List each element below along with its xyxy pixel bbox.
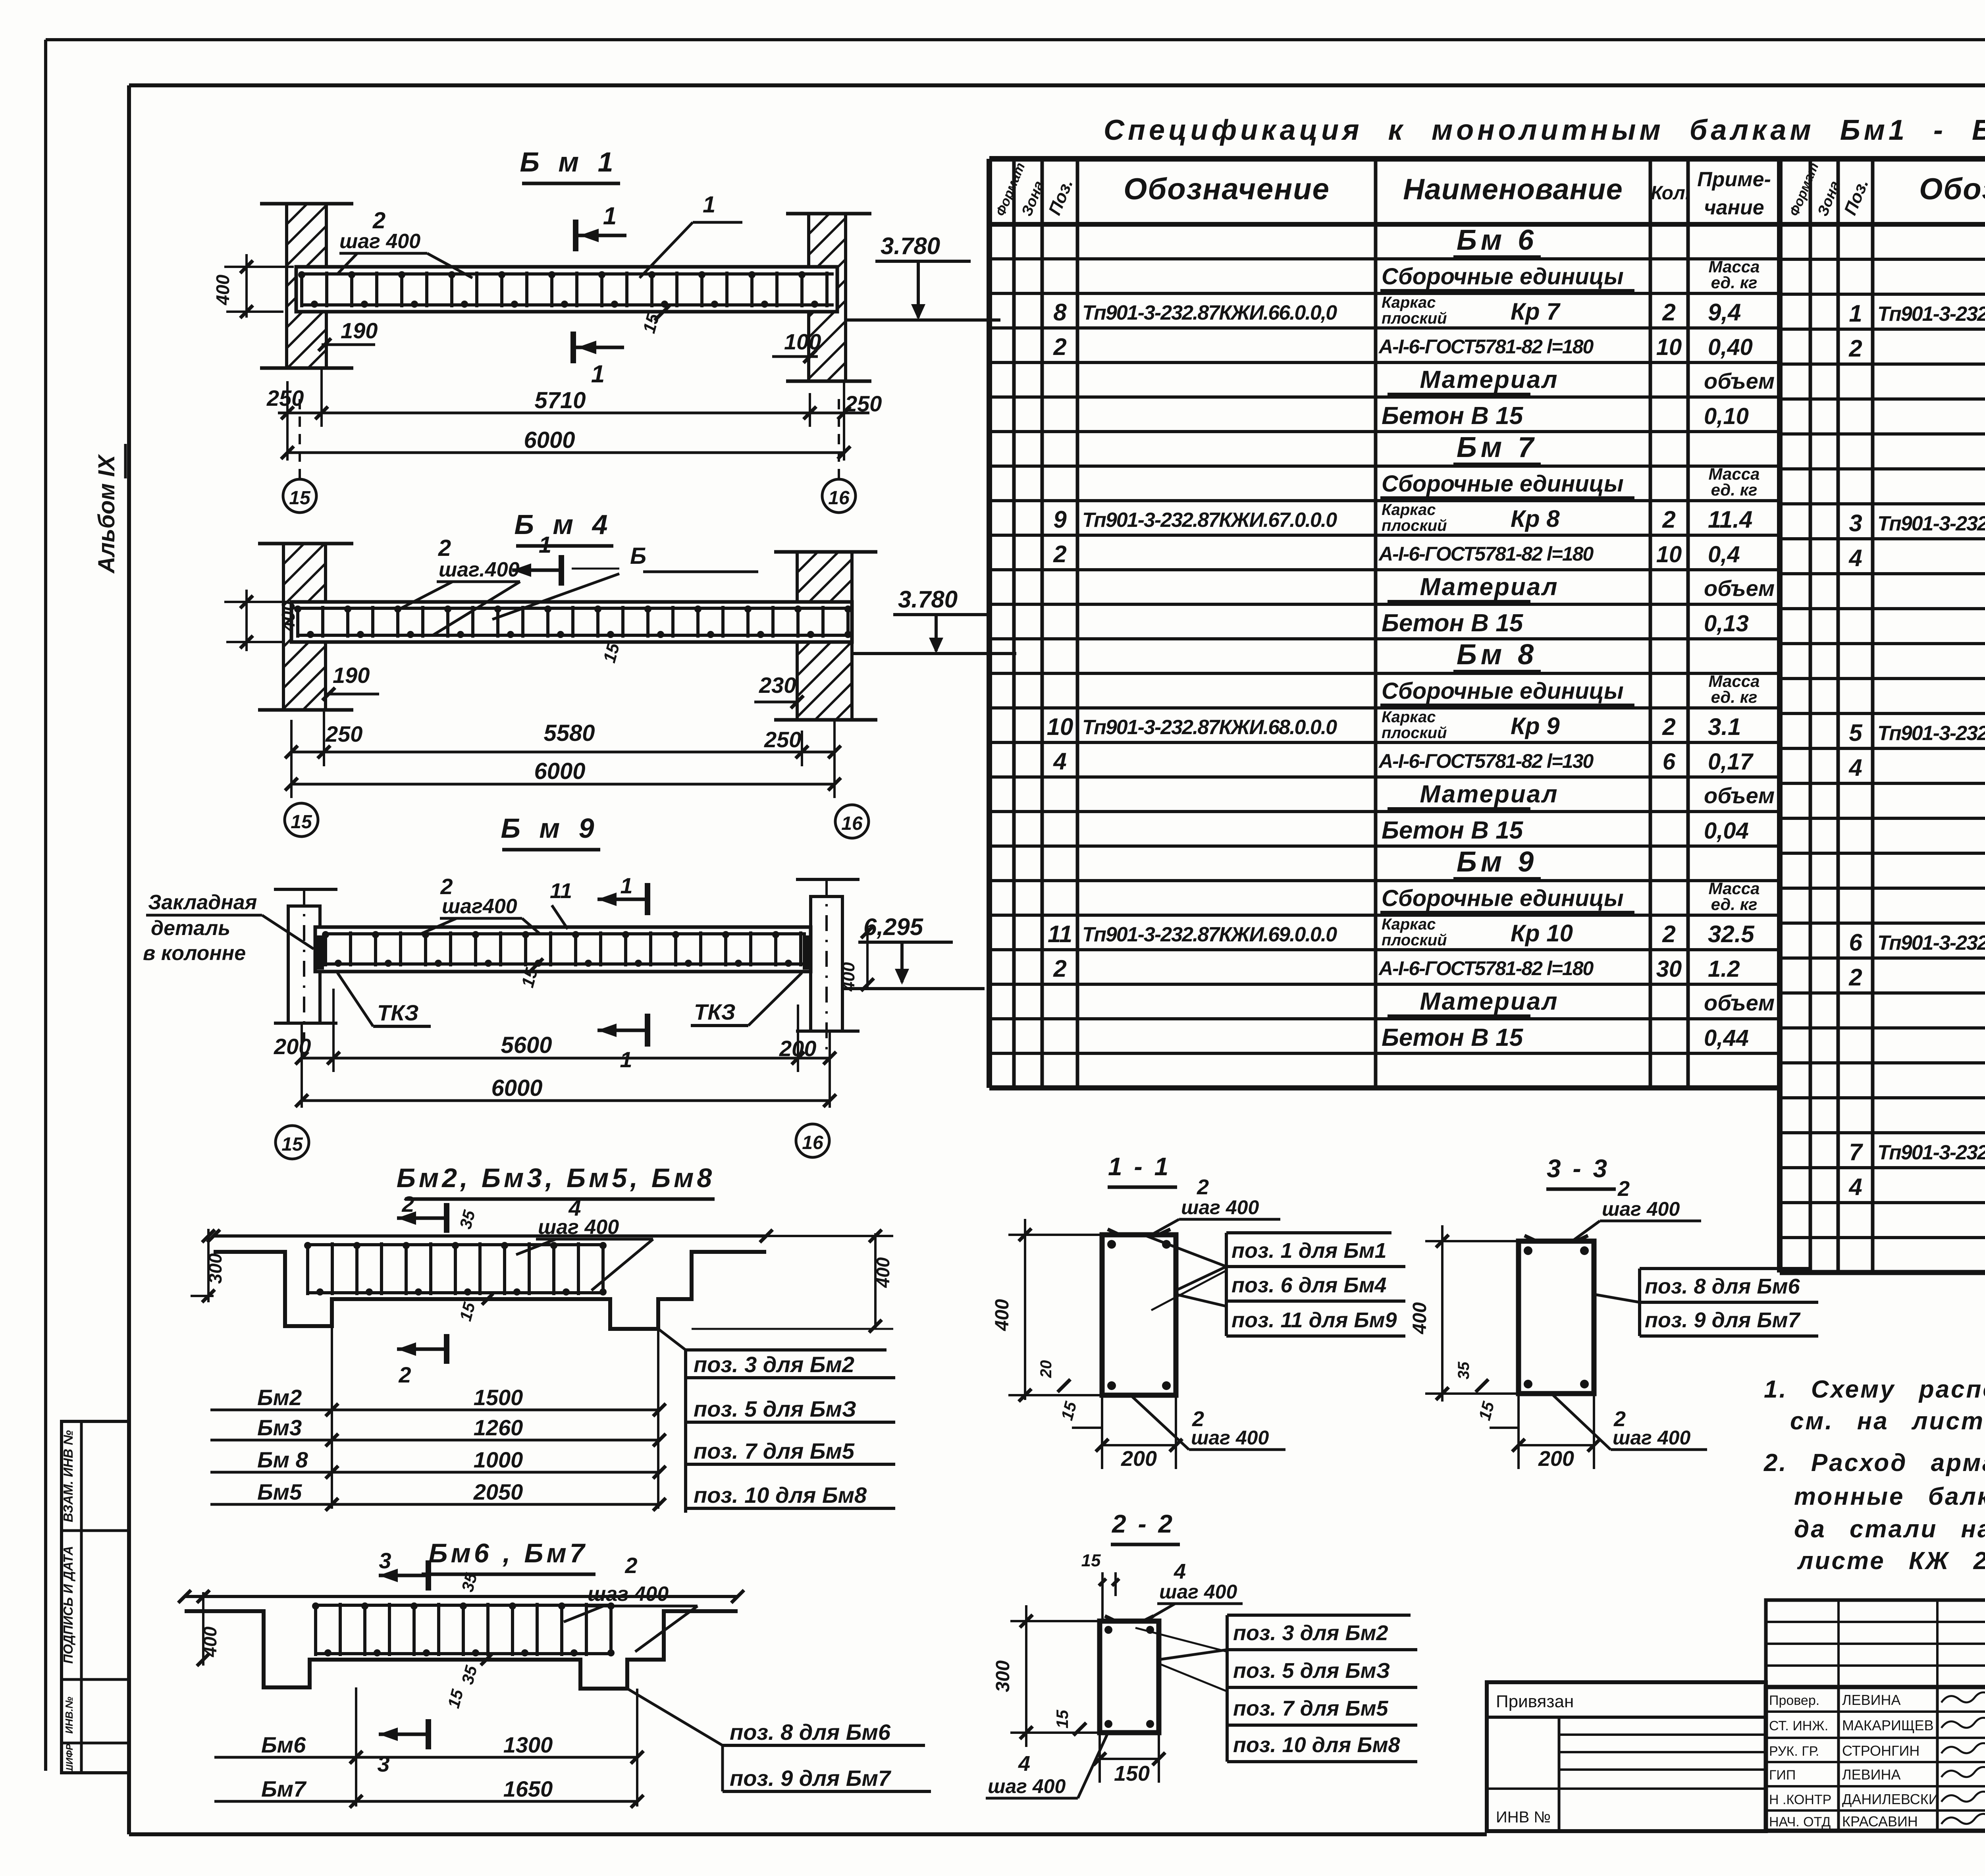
svg-text:Тп901-3-232.87КЖИ.63.0.0.0: Тп901-3-232.87КЖИ.63.0.0.0	[1877, 722, 1985, 745]
svg-text:поз. 3 для Бм2: поз. 3 для Бм2	[1233, 1621, 1388, 1645]
svg-text:Приме-: Приме-	[1697, 168, 1771, 191]
svg-text:400: 400	[992, 1299, 1013, 1331]
svg-text:объем: объем	[1704, 368, 1775, 393]
svg-text:Тп901-3-232.87КЖИ.69.0.0.0: Тп901-3-232.87КЖИ.69.0.0.0	[1082, 923, 1337, 946]
svg-text:15: 15	[291, 812, 312, 833]
svg-text:2: 2	[1662, 921, 1675, 947]
svg-text:0,04: 0,04	[1704, 818, 1749, 844]
svg-text:35: 35	[1455, 1361, 1472, 1379]
svg-text:2: 2	[438, 535, 451, 561]
svg-text:Б: Б	[630, 543, 646, 569]
svg-text:деталь: деталь	[151, 917, 230, 940]
svg-text:4: 4	[1848, 754, 1862, 781]
svg-text:2: 2	[1662, 506, 1675, 533]
svg-text:шаг 400: шаг 400	[588, 1583, 669, 1606]
svg-text:Тп901-3-232.87КЖИ.64.0.0.0: Тп901-3-232.87КЖИ.64.0.0.0	[1877, 931, 1985, 954]
svg-text:Привязан: Привязан	[1496, 1692, 1574, 1711]
svg-text:4: 4	[1174, 1560, 1186, 1583]
svg-text:ед. кг: ед. кг	[1711, 688, 1758, 706]
svg-text:Бм2, Бм3, Бм5, Бм8: Бм2, Бм3, Бм5, Бм8	[397, 1163, 715, 1193]
svg-text:1: 1	[1849, 300, 1862, 327]
svg-text:шаг400: шаг400	[442, 895, 517, 918]
svg-text:А-I-6-ГОСТ5781-82 l=180: А-I-6-ГОСТ5781-82 l=180	[1378, 543, 1594, 565]
svg-text:поз. 5 для БмЗ: поз. 5 для БмЗ	[1233, 1659, 1390, 1683]
svg-text:плоский: плоский	[1382, 310, 1447, 327]
svg-text:190: 190	[333, 663, 370, 688]
svg-text:4: 4	[1053, 748, 1066, 775]
svg-text:5600: 5600	[501, 1032, 552, 1058]
svg-text:2: 2	[1662, 299, 1675, 326]
svg-text:16: 16	[802, 1132, 823, 1153]
svg-text:1000: 1000	[474, 1447, 523, 1472]
svg-text:Каркас: Каркас	[1382, 501, 1436, 519]
svg-text:Альбом IX: Альбом IX	[94, 454, 119, 574]
svg-text:150: 150	[1114, 1762, 1150, 1785]
svg-text:Н .КОНТР: Н .КОНТР	[1769, 1792, 1831, 1807]
svg-text:поз. 11 для Бм9: поз. 11 для Бм9	[1231, 1308, 1397, 1332]
svg-text:0,17: 0,17	[1708, 749, 1754, 775]
svg-text:поз. 8 для Бм6: поз. 8 для Бм6	[730, 1720, 891, 1745]
svg-text:Бетон В 15: Бетон В 15	[1382, 609, 1524, 637]
svg-text:ЛЕВИНА: ЛЕВИНА	[1842, 1766, 1901, 1783]
svg-text:Кол.: Кол.	[1651, 183, 1690, 204]
svg-text:Кр 7: Кр 7	[1511, 298, 1561, 325]
svg-text:1: 1	[603, 202, 617, 230]
svg-text:ШИФР: ШИФР	[64, 1743, 75, 1774]
svg-text:Бм5: Бм5	[257, 1479, 302, 1504]
svg-text:250: 250	[325, 721, 362, 746]
svg-text:0,4: 0,4	[1708, 542, 1740, 567]
svg-text:Каркас: Каркас	[1382, 916, 1436, 933]
svg-text:поз. 7 для Бм5: поз. 7 для Бм5	[694, 1438, 855, 1463]
svg-text:Бм3: Бм3	[257, 1415, 302, 1440]
svg-text:Обозначение: Обозначение	[1124, 172, 1330, 206]
svg-text:Кр 8: Кр 8	[1511, 505, 1560, 532]
svg-text:Бм6 , Бм7: Бм6 , Бм7	[428, 1538, 588, 1568]
svg-text:0,44: 0,44	[1704, 1025, 1749, 1051]
svg-text:2: 2	[624, 1553, 637, 1578]
svg-text:Б м 4: Б м 4	[514, 509, 613, 540]
svg-text:Материал: Материал	[1420, 573, 1558, 601]
svg-text:ПОДПИСЬ И ДАТА: ПОДПИСЬ И ДАТА	[61, 1546, 75, 1664]
svg-text:СТРОНГИН: СТРОНГИН	[1842, 1743, 1919, 1759]
svg-text:чание: чание	[1704, 196, 1764, 219]
svg-text:1260: 1260	[474, 1415, 523, 1440]
svg-text:Сборочные единицы: Сборочные единицы	[1382, 264, 1624, 289]
svg-text:плоский: плоский	[1382, 517, 1447, 534]
svg-text:0,10: 0,10	[1704, 403, 1749, 429]
svg-text:2. Расход арматуры на монол: 2. Расход арматуры на монолитные железоб…	[1763, 1449, 1985, 1477]
svg-text:2: 2	[1617, 1177, 1630, 1201]
svg-text:16: 16	[828, 488, 850, 509]
svg-text:1650: 1650	[503, 1776, 553, 1801]
svg-text:объем: объем	[1704, 783, 1775, 808]
svg-text:А-I-6-ГОСТ5781-82 l=180: А-I-6-ГОСТ5781-82 l=180	[1378, 957, 1594, 979]
svg-text:6: 6	[1849, 929, 1862, 956]
svg-text:400: 400	[278, 601, 299, 632]
svg-text:поз. 10 для Бм8: поз. 10 для Бм8	[1233, 1733, 1400, 1757]
svg-text:Бетон В 15: Бетон В 15	[1382, 817, 1524, 844]
svg-text:шаг 400: шаг 400	[988, 1775, 1066, 1797]
svg-text:3: 3	[1849, 510, 1862, 536]
svg-text:3.1: 3.1	[1708, 713, 1741, 740]
svg-text:400: 400	[1409, 1302, 1430, 1334]
svg-text:КРАСАВИН: КРАСАВИН	[1842, 1813, 1918, 1830]
svg-text:1: 1	[591, 361, 605, 388]
svg-text:Каркас: Каркас	[1382, 294, 1436, 311]
svg-text:2: 2	[1053, 541, 1066, 567]
svg-text:МАКАРИЩЕВ: МАКАРИЩЕВ	[1842, 1717, 1934, 1733]
svg-text:плоский: плоский	[1382, 724, 1447, 742]
svg-text:15: 15	[281, 1134, 303, 1155]
svg-text:Сборочные единицы: Сборочные единицы	[1382, 678, 1624, 704]
svg-text:3 - 3: 3 - 3	[1547, 1154, 1609, 1183]
svg-text:Закладная: Закладная	[148, 891, 257, 914]
svg-text:Сборочные единицы: Сборочные единицы	[1382, 885, 1624, 911]
svg-text:тонные балки учтен в ведо: тонные балки учтен в ведомости расхо-	[1794, 1483, 1985, 1510]
svg-text:15: 15	[1053, 1710, 1072, 1728]
svg-text:1: 1	[620, 873, 632, 898]
svg-text:Тп901-3-232.87КЖИ.67.0.0.0: Тп901-3-232.87КЖИ.67.0.0.0	[1082, 509, 1337, 532]
svg-text:15: 15	[1081, 1551, 1101, 1570]
svg-text:шаг 400: шаг 400	[1191, 1427, 1269, 1449]
svg-text:1500: 1500	[474, 1385, 523, 1410]
svg-text:2: 2	[1053, 334, 1066, 360]
svg-text:400: 400	[212, 274, 233, 305]
svg-text:ГИП: ГИП	[1769, 1768, 1796, 1783]
svg-text:Провер.: Провер.	[1769, 1693, 1819, 1708]
svg-text:СТ. ИНЖ.: СТ. ИНЖ.	[1769, 1718, 1828, 1733]
svg-text:ВЗАМ. ИНВ №: ВЗАМ. ИНВ №	[61, 1430, 75, 1522]
svg-text:11: 11	[1048, 921, 1072, 947]
svg-text:Материал: Материал	[1420, 781, 1558, 808]
svg-text:шаг.400: шаг.400	[439, 558, 520, 581]
svg-text:30: 30	[1656, 956, 1682, 982]
svg-text:А-I-6-ГОСТ5781-82 l=130: А-I-6-ГОСТ5781-82 l=130	[1378, 750, 1594, 772]
svg-text:ТКЗ: ТКЗ	[377, 1000, 419, 1025]
svg-text:6: 6	[1663, 749, 1676, 775]
svg-text:поз. 5 для БмЗ: поз. 5 для БмЗ	[694, 1396, 856, 1421]
svg-text:2: 2	[398, 1362, 411, 1387]
svg-text:3.780: 3.780	[881, 233, 940, 259]
svg-text:Бм6: Бм6	[261, 1732, 306, 1757]
svg-text:6000: 6000	[524, 427, 575, 453]
svg-text:шаг 400: шаг 400	[1181, 1196, 1259, 1219]
svg-text:Бетон В 15: Бетон В 15	[1382, 1024, 1524, 1051]
svg-text:2: 2	[401, 1192, 414, 1217]
svg-text:200: 200	[1121, 1447, 1157, 1471]
svg-text:ИНВ.№: ИНВ.№	[63, 1697, 75, 1733]
svg-text:Б м 1: Б м 1	[520, 147, 619, 177]
svg-text:190: 190	[341, 318, 378, 343]
svg-text:шаг 400: шаг 400	[1159, 1581, 1237, 1603]
svg-text:9: 9	[1053, 506, 1067, 533]
svg-text:2: 2	[1662, 713, 1675, 740]
svg-text:7: 7	[1849, 1139, 1863, 1165]
svg-text:2: 2	[1053, 955, 1066, 982]
svg-text:листе КЖ 28.: листе КЖ 28.	[1797, 1547, 1985, 1575]
svg-text:10: 10	[1656, 334, 1682, 360]
svg-text:250: 250	[266, 386, 304, 411]
svg-text:поз. 6 для Бм4: поз. 6 для Бм4	[1231, 1273, 1387, 1297]
svg-text:300: 300	[992, 1660, 1014, 1692]
svg-text:Каркас: Каркас	[1382, 708, 1436, 726]
svg-text:поз. 9 для Бм7: поз. 9 для Бм7	[1645, 1308, 1801, 1332]
svg-text:2: 2	[1848, 964, 1862, 991]
svg-text:3.780: 3.780	[898, 586, 958, 613]
svg-text:4: 4	[1848, 545, 1862, 571]
svg-text:20: 20	[1037, 1360, 1055, 1379]
svg-text:Бм 6: Бм 6	[1457, 224, 1538, 256]
svg-text:поз. 8 для Бм6: поз. 8 для Бм6	[1645, 1274, 1800, 1298]
svg-text:ИНВ №: ИНВ №	[1496, 1809, 1551, 1826]
svg-text:поз. 7 для Бм5: поз. 7 для Бм5	[1233, 1697, 1389, 1720]
svg-text:поз. 3 для Бм2: поз. 3 для Бм2	[694, 1352, 854, 1377]
svg-text:плоский: плоский	[1382, 931, 1447, 949]
svg-text:Б м 9: Б м 9	[501, 813, 599, 844]
svg-text:да стали на монолитные уча: да стали на монолитные участки на	[1794, 1515, 1985, 1543]
svg-text:ТКЗ: ТКЗ	[694, 999, 736, 1024]
svg-text:6000: 6000	[491, 1075, 542, 1101]
svg-text:0,13: 0,13	[1704, 611, 1749, 636]
svg-text:5580: 5580	[543, 720, 595, 746]
svg-text:шаг 400: шаг 400	[339, 230, 420, 253]
svg-text:1.2: 1.2	[1708, 956, 1740, 982]
svg-text:А-I-6-ГОСТ5781-82 l=180: А-I-6-ГОСТ5781-82 l=180	[1378, 335, 1594, 358]
svg-text:шаг 400: шаг 400	[1613, 1427, 1690, 1449]
svg-text:2050: 2050	[473, 1479, 523, 1504]
svg-text:поз. 10 для Бм8: поз. 10 для Бм8	[694, 1483, 867, 1508]
svg-text:5710: 5710	[534, 388, 586, 413]
svg-text:Тп901-3-232.87КЖИ.68.0.0.0: Тп901-3-232.87КЖИ.68.0.0.0	[1082, 716, 1337, 739]
svg-text:0,40: 0,40	[1708, 334, 1753, 360]
svg-text:Материал: Материал	[1420, 366, 1558, 393]
svg-text:1300: 1300	[503, 1732, 553, 1757]
svg-text:ед. кг: ед. кг	[1711, 273, 1758, 292]
svg-text:16: 16	[841, 813, 863, 834]
svg-text:Обозначение: Обозначение	[1919, 172, 1985, 206]
svg-text:в колонне: в колонне	[143, 942, 246, 965]
svg-text:Тп901-3-232.87КЖИ.65.0.0.0: Тп901-3-232.87КЖИ.65.0.0.0	[1877, 1141, 1985, 1164]
svg-text:ед. кг: ед. кг	[1711, 895, 1758, 914]
svg-text:2: 2	[1848, 335, 1862, 362]
svg-text:4: 4	[1848, 1174, 1862, 1200]
svg-text:Бм 7: Бм 7	[1457, 432, 1538, 463]
svg-text:3: 3	[377, 1751, 389, 1776]
svg-text:Сборочные единицы: Сборочные единицы	[1382, 471, 1624, 497]
svg-text:Бм2: Бм2	[257, 1385, 302, 1410]
svg-text:9,4: 9,4	[1708, 299, 1741, 326]
svg-text:11: 11	[550, 879, 572, 903]
svg-text:ЛЕВИНА: ЛЕВИНА	[1842, 1692, 1901, 1708]
svg-text:11.4: 11.4	[1708, 506, 1752, 533]
svg-text:6000: 6000	[534, 758, 585, 784]
svg-text:ДАНИЛЕВСКИ: ДАНИЛЕВСКИ	[1842, 1791, 1939, 1807]
svg-text:Бм 9: Бм 9	[1457, 846, 1538, 878]
svg-text:НАЧ. ОТД: НАЧ. ОТД	[1769, 1814, 1831, 1830]
svg-text:Наименование: Наименование	[1403, 173, 1623, 206]
svg-text:Бм 8: Бм 8	[257, 1447, 308, 1472]
svg-text:Тп901-3-232.87КЖИ.66.0.0,0: Тп901-3-232.87КЖИ.66.0.0,0	[1082, 301, 1337, 324]
svg-text:см. на листе КЖ 23.: см. на листе КЖ 23.	[1790, 1407, 1985, 1435]
svg-text:3: 3	[379, 1548, 391, 1573]
svg-text:5: 5	[1849, 719, 1863, 746]
svg-text:250: 250	[764, 727, 801, 752]
svg-text:Бетон В 15: Бетон В 15	[1382, 402, 1524, 430]
svg-text:поз. 9 для Бм7: поз. 9 для Бм7	[730, 1766, 892, 1791]
svg-text:1. Схему расположения моноли: 1. Схему расположения монолитных ж:б. ба…	[1764, 1376, 1985, 1403]
svg-text:РУК. ГР.: РУК. ГР.	[1769, 1744, 1819, 1759]
svg-text:4: 4	[1018, 1752, 1030, 1776]
svg-text:230: 230	[759, 673, 796, 698]
svg-text:15: 15	[289, 488, 311, 509]
svg-text:Кр 10: Кр 10	[1511, 920, 1573, 947]
svg-text:объем: объем	[1704, 990, 1775, 1015]
svg-text:Спецификация к монолитным б: Спецификация к монолитным балкам Бм1 - Б…	[1104, 114, 1985, 146]
svg-text:10: 10	[1047, 713, 1073, 740]
svg-text:8: 8	[1053, 299, 1067, 326]
svg-text:10: 10	[1656, 542, 1682, 567]
svg-text:Бм 8: Бм 8	[1457, 639, 1538, 671]
svg-text:1 - 1: 1 - 1	[1108, 1152, 1171, 1181]
svg-text:поз. 1 для Бм1: поз. 1 для Бм1	[1231, 1239, 1387, 1263]
svg-text:Тп901-3-232.87КЖИ.61.0.0.0: Тп901-3-232.87КЖИ.61.0.0.0	[1877, 303, 1985, 326]
svg-text:2: 2	[1197, 1175, 1209, 1199]
svg-text:Бм7: Бм7	[261, 1776, 307, 1801]
svg-text:объем: объем	[1704, 576, 1775, 601]
svg-text:400: 400	[839, 962, 858, 992]
svg-text:2 - 2: 2 - 2	[1112, 1510, 1175, 1538]
svg-text:Материал: Материал	[1420, 988, 1558, 1015]
svg-text:1: 1	[703, 192, 715, 218]
svg-text:Тп901-3-232.87КЖИ.62.0.0,0: Тп901-3-232.87КЖИ.62.0.0,0	[1877, 512, 1985, 535]
svg-text:1: 1	[539, 532, 551, 558]
svg-text:шаг 400: шаг 400	[1602, 1198, 1680, 1220]
svg-text:200: 200	[1538, 1447, 1574, 1471]
svg-text:Кр 9: Кр 9	[1511, 713, 1560, 739]
svg-text:32.5: 32.5	[1708, 921, 1755, 947]
svg-text:ед. кг: ед. кг	[1711, 480, 1758, 499]
